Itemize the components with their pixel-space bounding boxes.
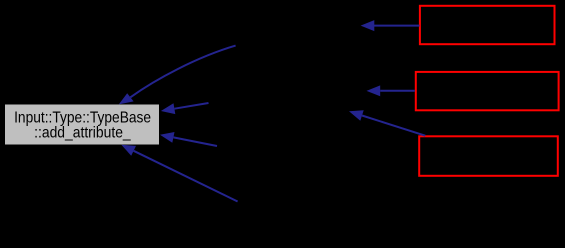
svg-text:::add_attribute_: ::add_attribute_ <box>34 125 131 142</box>
